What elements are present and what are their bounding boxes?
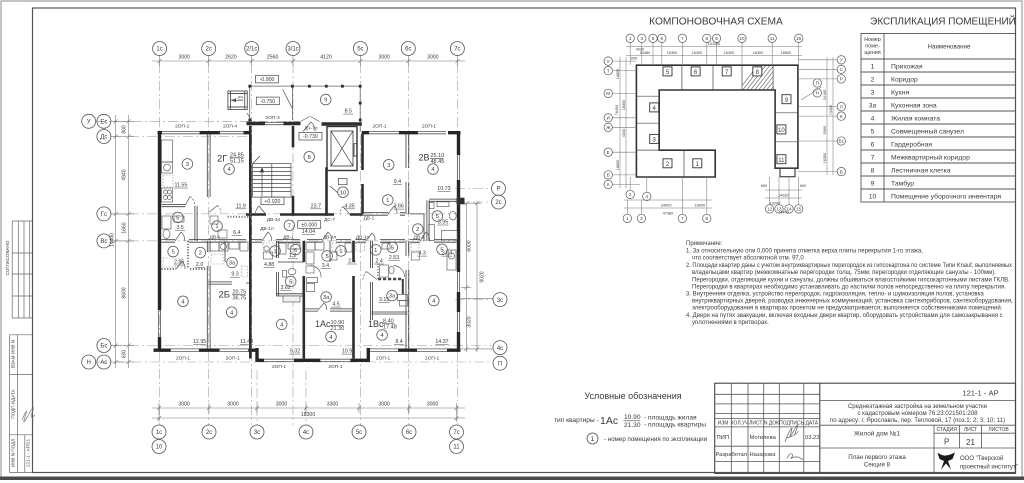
svg-text:14400: 14400	[110, 233, 116, 247]
svg-text:2с: 2с	[495, 200, 501, 206]
svg-text:2с: 2с	[206, 430, 212, 436]
svg-text:1: 1	[339, 249, 342, 255]
bottom wall segments	[154, 349, 461, 352]
svg-text:8: 8	[308, 155, 311, 161]
bottom axis circles	[152, 425, 464, 454]
svg-text:+0.020: +0.020	[264, 199, 280, 205]
svg-text:9: 9	[871, 181, 875, 188]
svg-text:Ж: Ж	[606, 125, 611, 130]
svg-text:16800: 16800	[616, 69, 620, 80]
windows (thin double lines)	[159, 122, 460, 361]
svg-text:2ОП-1: 2ОП-1	[226, 356, 240, 362]
svg-text:ДВ-1л: ДВ-1л	[260, 226, 274, 232]
svg-text:2560: 2560	[267, 55, 279, 61]
svg-text:14.37: 14.37	[435, 339, 448, 345]
svg-text:Дс: Дс	[100, 135, 107, 141]
svg-text:1: 1	[386, 198, 389, 204]
svg-text:3.5: 3.5	[176, 225, 183, 231]
svg-text:щения: щения	[864, 50, 880, 56]
svg-text:2Г: 2Г	[217, 154, 227, 165]
svg-text:Е: Е	[607, 150, 610, 155]
apartment labels	[217, 153, 444, 333]
svg-text:3а: 3а	[229, 261, 236, 267]
svg-text:3: 3	[387, 163, 390, 169]
svg-text:5: 5	[871, 129, 875, 136]
svg-text:7с: 7с	[454, 47, 460, 53]
svg-text:11: 11	[770, 36, 775, 41]
svg-text:электрооборудования в квартир: электрооборудования в квартирах проектом…	[692, 305, 1003, 312]
svg-text:16300: 16300	[753, 51, 764, 55]
svg-text:1: 1	[629, 36, 632, 41]
svg-text:1Вс: 1Вс	[368, 319, 384, 329]
svg-text:17.48: 17.48	[383, 325, 397, 331]
svg-text:3: 3	[641, 36, 644, 41]
svg-text:ДВ-1: ДВ-1	[364, 216, 375, 222]
svg-text:16800: 16800	[616, 160, 620, 171]
svg-text:3000: 3000	[276, 402, 288, 408]
svg-text:9: 9	[715, 36, 718, 41]
svg-text:Разработал: Разработал	[716, 452, 748, 458]
svg-text:3000: 3000	[427, 402, 439, 408]
svg-text:8.5: 8.5	[345, 109, 352, 115]
svg-text:9: 9	[324, 98, 327, 104]
svg-text:03.22: 03.22	[805, 435, 820, 441]
svg-text:10.90: 10.90	[624, 414, 641, 421]
grid: horizontal dashed axis lines	[96, 121, 492, 362]
svg-text:3: 3	[640, 216, 643, 221]
key plan axis circles bottom	[623, 190, 803, 222]
svg-text:4.88: 4.88	[264, 262, 274, 268]
entrance canopy	[228, 91, 247, 110]
svg-text:ЛИСТ: ЛИСТ	[749, 421, 762, 427]
svg-text:Гс: Гс	[101, 212, 107, 218]
svg-text:2В: 2В	[419, 153, 430, 163]
svg-text:2с: 2с	[206, 47, 212, 53]
svg-text:6000: 6000	[467, 240, 473, 251]
svg-text:4: 4	[646, 194, 649, 199]
svg-text:СОГЛАСОВАНО: СОГЛАСОВАНО	[5, 240, 10, 275]
svg-text:ООО "Тверской: ООО "Тверской	[960, 455, 1003, 462]
svg-text:1: 1	[591, 436, 595, 443]
svg-text:КОЛ.УЧ: КОЛ.УЧ	[731, 421, 749, 427]
svg-text:Кухонная зона: Кухонная зона	[891, 103, 937, 110]
left wall segments	[158, 131, 161, 350]
svg-text:121-1 - АР/21: 121-1 - АР/21	[26, 438, 31, 467]
door swings	[175, 113, 430, 310]
svg-text:7: 7	[288, 223, 291, 229]
svg-text:8: 8	[706, 216, 709, 221]
svg-text:Примечание:: Примечание:	[686, 241, 723, 247]
svg-text:3000: 3000	[427, 55, 439, 61]
svg-text:2. Площади квартир даны с учет: 2. Площади квартир даны с учетом внутрик…	[686, 263, 1012, 269]
svg-text:18300: 18300	[301, 412, 316, 418]
svg-text:Перегородки в квартирах необх: Перегородки в квартирах необходимо устан…	[692, 284, 1006, 290]
key plan building U-outline	[636, 65, 798, 177]
right axis circles	[492, 181, 508, 370]
svg-text:74400: 74400	[778, 211, 789, 215]
svg-text:21.30: 21.30	[331, 326, 345, 332]
svg-text:2620: 2620	[225, 55, 237, 61]
svg-text:2: 2	[871, 77, 875, 84]
dotted appliance outlines	[163, 175, 419, 277]
svg-text:У: У	[607, 59, 610, 64]
svg-text:ДАТА: ДАТА	[806, 421, 819, 427]
top dimension line	[152, 55, 465, 66]
svg-text:7: 7	[871, 155, 875, 162]
svg-text:-0.730: -0.730	[303, 134, 318, 140]
svg-text:проектный институт": проектный институт"	[960, 464, 1018, 471]
svg-text:ВЗАМ ИНВ N: ВЗАМ ИНВ N	[11, 340, 16, 368]
svg-text:18900: 18900	[695, 204, 706, 208]
svg-text:2ОП-1: 2ОП-1	[176, 356, 190, 362]
svg-text:2ОП-1: 2ОП-1	[425, 356, 439, 362]
svg-text:У: У	[840, 58, 843, 63]
svg-text:2.5: 2.5	[348, 259, 355, 265]
interior vertical partitions (double line)	[207, 133, 408, 348]
svg-text:4340: 4340	[622, 129, 626, 137]
room number circles	[168, 94, 448, 342]
svg-text:11: 11	[453, 445, 460, 451]
svg-text:- номер помещения по экспликац: - номер помещения по экспликации	[604, 436, 708, 443]
svg-text:10: 10	[340, 190, 346, 196]
svg-text:7: 7	[681, 216, 684, 221]
svg-text:3020: 3020	[467, 316, 473, 327]
svg-text:Номер: Номер	[864, 37, 881, 43]
svg-text:Вс: Вс	[100, 239, 107, 245]
svg-text:4. Двери на путях эвакуации, в: 4. Двери на путях эвакуации, включая вхо…	[686, 312, 1003, 319]
svg-text:Наименование: Наименование	[928, 44, 971, 51]
svg-text:5: 5	[176, 216, 179, 222]
svg-text:16300: 16300	[823, 153, 827, 164]
svg-text:76400: 76400	[615, 105, 619, 116]
svg-text:-0.750: -0.750	[260, 99, 275, 105]
bay walls	[257, 348, 368, 362]
svg-text:3/1с: 3/1с	[287, 47, 298, 53]
svg-text:3000: 3000	[378, 402, 390, 408]
svg-text:800: 800	[122, 125, 128, 134]
svg-text:5: 5	[171, 250, 174, 256]
svg-text:21: 21	[966, 438, 975, 447]
svg-text:10: 10	[778, 128, 785, 134]
svg-text:600: 600	[631, 57, 637, 61]
svg-text:поме-: поме-	[865, 44, 880, 50]
svg-text:П: П	[816, 81, 819, 86]
grid: vertical dashed axis lines	[160, 63, 458, 425]
svg-text:Секция 8: Секция 8	[864, 462, 891, 469]
2V bath	[430, 203, 435, 209]
svg-text:- площадь квартиры: - площадь квартиры	[644, 422, 706, 429]
svg-text:владельцами квартир (межкомнат: владельцами квартир (межкомнатные перего…	[692, 270, 996, 276]
exterior walls	[154, 131, 461, 362]
svg-text:4120: 4120	[320, 55, 332, 61]
svg-text:4с: 4с	[303, 430, 309, 436]
svg-text:±0.000: ±0.000	[301, 223, 317, 229]
svg-text:ПОДПИСЬ: ПОДПИСЬ	[779, 421, 805, 427]
svg-text:21.30: 21.30	[624, 422, 641, 429]
svg-text:8: 8	[871, 168, 875, 175]
svg-text:Р: Р	[840, 77, 843, 82]
svg-text:8.4: 8.4	[395, 339, 402, 345]
svg-text:уплотнениями в притворах.: уплотнениями в притворах.	[692, 320, 769, 326]
svg-text:Б1: Б1	[839, 139, 845, 144]
svg-text:2Б: 2Б	[219, 290, 231, 301]
svg-text:Коридор: Коридор	[891, 77, 918, 84]
svg-text:1с: 1с	[156, 47, 162, 53]
svg-text:Жилая комната: Жилая комната	[891, 116, 940, 123]
1Bc bath	[389, 266, 394, 274]
svg-text:5с: 5с	[357, 47, 363, 53]
1Ac bath	[279, 243, 286, 254]
signature in strip	[22, 407, 35, 422]
svg-text:тип квартиры -: тип квартиры -	[554, 417, 599, 424]
svg-text:15: 15	[796, 36, 802, 41]
svg-text:2ОП-1: 2ОП-1	[372, 124, 386, 130]
svg-text:23.7: 23.7	[311, 203, 321, 209]
svg-text:600: 600	[800, 184, 806, 188]
svg-text:7: 7	[681, 36, 684, 41]
kitchen/bath fixtures	[162, 140, 458, 306]
svg-text:3а: 3а	[389, 294, 396, 300]
logo	[938, 453, 956, 470]
svg-text:1Ас: 1Ас	[315, 319, 331, 329]
svg-text:3. Внутренняя отделка, устройс: 3. Внутренняя отделка, устройство перего…	[686, 291, 984, 298]
svg-text:15: 15	[796, 207, 802, 212]
svg-text:что соответствует абсолютной о: что соответствует абсолютной отм. 97,0	[692, 255, 804, 262]
svg-text:М: М	[606, 91, 610, 96]
svg-text:2.0: 2.0	[196, 262, 203, 268]
stairwell bottom wall	[246, 213, 363, 216]
explication table	[861, 34, 1016, 203]
svg-text:6.4: 6.4	[233, 230, 240, 236]
svg-text:3.95: 3.95	[438, 220, 448, 226]
svg-text:3а: 3а	[323, 295, 330, 301]
svg-text:2ОП-1: 2ОП-1	[422, 124, 436, 130]
svg-text:2: 2	[629, 192, 632, 197]
svg-text:2ОП-4: 2ОП-4	[223, 124, 237, 130]
svg-text:N ДОК: N ДОК	[764, 421, 779, 427]
svg-text:3000: 3000	[227, 402, 239, 408]
svg-text:4940: 4940	[122, 169, 128, 180]
svg-text:14480: 14480	[640, 51, 651, 55]
svg-text:ЛИСТОВ: ЛИСТОВ	[988, 427, 1009, 433]
svg-text:5: 5	[652, 36, 655, 41]
svg-text:Тамбур: Тамбур	[891, 180, 914, 188]
svg-text:2.4: 2.4	[375, 259, 382, 265]
tambour double door leaves	[301, 117, 320, 122]
svg-text:1Ас: 1Ас	[600, 415, 618, 427]
svg-text:Межквартирный коридор: Межквартирный коридор	[891, 154, 970, 162]
svg-text:600: 600	[761, 184, 767, 188]
svg-text:10: 10	[156, 445, 163, 451]
svg-text:48.45: 48.45	[431, 159, 445, 165]
window in protrusion wall 2OP-3	[265, 122, 284, 124]
svg-text:Условные обозначения: Условные обозначения	[584, 391, 681, 401]
svg-text:2.53: 2.53	[389, 255, 399, 261]
svg-text:12: 12	[767, 207, 773, 212]
svg-text:2ОП-1: 2ОП-1	[376, 356, 390, 362]
window/door labels	[175, 115, 439, 370]
svg-text:Назарова: Назарова	[750, 452, 777, 458]
svg-text:10: 10	[869, 194, 877, 201]
svg-text:Т: Т	[607, 68, 610, 73]
kitchen 2G along left wall	[162, 140, 173, 162]
svg-text:Л: Л	[840, 104, 843, 109]
protrusion bottom thick wall with 2OP-3 window and tambour door	[247, 122, 362, 126]
svg-text:9020: 9020	[480, 271, 486, 282]
svg-text:Кухня: Кухня	[891, 90, 910, 97]
svg-text:4: 4	[871, 116, 875, 123]
svg-text:47380: 47380	[663, 212, 674, 216]
svg-text:2ОП-1: 2ОП-1	[328, 364, 342, 370]
svg-text:Р: Р	[496, 187, 500, 193]
svg-text:4с: 4с	[497, 346, 503, 352]
dotted partition segment	[228, 216, 252, 218]
svg-text:1: 1	[374, 248, 377, 254]
svg-text:3300: 3300	[327, 402, 339, 408]
svg-text:с кадастровым номером 76:23:02: с кадастровым номером 76:23:021501:208	[857, 410, 978, 417]
svg-text:ДС-7: ДС-7	[324, 217, 335, 223]
apt 2B kitchen row	[210, 242, 219, 251]
svg-text:8%: 8%	[238, 96, 243, 100]
svg-text:Могилева: Могилева	[750, 435, 777, 441]
2V kitchen right	[447, 250, 456, 270]
svg-text:7с: 7с	[453, 430, 459, 436]
svg-text:Н: Н	[816, 91, 819, 96]
svg-text:101180: 101180	[708, 42, 720, 46]
svg-text:ДЧ-7л: ДЧ-7л	[304, 126, 318, 132]
svg-text:ЛИСТ: ЛИСТ	[964, 427, 977, 433]
svg-text:ДВ-1: ДВ-1	[210, 234, 221, 240]
svg-text:1: 1	[626, 216, 629, 221]
svg-text:16300: 16300	[724, 51, 735, 55]
LEFT STRIP	[10, 221, 33, 473]
svg-text:10: 10	[739, 36, 745, 41]
svg-text:6: 6	[661, 36, 664, 41]
svg-text:9.32: 9.32	[290, 349, 300, 355]
1Ac kitchen	[306, 242, 315, 250]
svg-text:11.9: 11.9	[236, 203, 246, 209]
svg-text:51.15: 51.15	[230, 159, 244, 165]
room 10 sink	[338, 179, 347, 185]
section number squares	[650, 67, 791, 168]
NOTES	[686, 241, 1013, 326]
svg-text:74400: 74400	[829, 105, 833, 116]
svg-text:3000: 3000	[178, 402, 190, 408]
svg-text:2/1с: 2/1с	[246, 47, 257, 53]
svg-text:5: 5	[325, 254, 328, 260]
svg-text:4.35: 4.35	[344, 203, 354, 209]
stairs	[253, 156, 292, 197]
svg-text:3.62: 3.62	[281, 285, 291, 291]
svg-text:13200: 13200	[770, 202, 781, 206]
interior horizontal partitions (double line)	[162, 199, 459, 314]
svg-text:СТАДИЯ: СТАДИЯ	[936, 427, 957, 433]
svg-text:Р: Р	[944, 438, 949, 447]
svg-text:9.4: 9.4	[394, 179, 401, 185]
svg-text:4020: 4020	[636, 48, 644, 52]
svg-text:3.15: 3.15	[379, 297, 389, 303]
svg-text:8: 8	[706, 36, 709, 41]
svg-text:ДВ-1п: ДВ-1п	[323, 234, 337, 240]
svg-text:Б: Б	[607, 173, 610, 178]
svg-text:Среднеэтажная застройка на зем: Среднеэтажная застройка на земельном уча…	[848, 403, 988, 410]
svg-text:Бс: Бс	[100, 344, 107, 350]
signatures	[785, 425, 799, 442]
svg-text:Перегородки, отделяющие кухни: Перегородки, отделяющие кухни и санузлы,…	[692, 276, 1010, 283]
bottom dimension lines	[152, 403, 465, 422]
svg-text:24900: 24900	[661, 204, 672, 208]
svg-text:1: 1	[871, 64, 875, 71]
TITLE BLOCK	[715, 383, 1016, 473]
top wall segments	[158, 131, 461, 134]
svg-text:36.75: 36.75	[233, 296, 247, 302]
right vertical dimension lines	[461, 201, 493, 352]
svg-text:14620: 14620	[778, 194, 789, 198]
svg-text:10.9: 10.9	[342, 349, 352, 355]
svg-text:Лестничная клетка: Лестничная клетка	[891, 168, 951, 175]
area dims underlined	[174, 109, 452, 355]
svg-text:КОМПОНОВОЧНАЯ СХЕМА: КОМПОНОВОЧНАЯ СХЕМА	[649, 17, 783, 28]
svg-text:16300: 16300	[692, 51, 703, 55]
svg-text:ДВ-3л: ДВ-3л	[267, 217, 281, 223]
svg-text:внутриквартирных дверей, разво: внутриквартирных дверей, разводка инжене…	[692, 298, 1013, 305]
bottom scan dark bar	[0, 477, 1024, 481]
svg-text:ДВ-1: ДВ-1	[414, 234, 425, 240]
svg-text:2: 2	[416, 227, 419, 233]
svg-text:- площадь жилая: - площадь жилая	[644, 415, 697, 422]
elevation marks	[256, 75, 323, 228]
svg-text:Жилой дом №1: Жилой дом №1	[854, 430, 900, 438]
svg-text:11.55: 11.55	[174, 183, 187, 189]
svg-text:План первого этажа: План первого этажа	[848, 454, 906, 461]
svg-text:11: 11	[778, 158, 785, 164]
elevator	[327, 127, 357, 171]
svg-text:5: 5	[391, 245, 394, 251]
svg-text:3000: 3000	[179, 55, 191, 61]
svg-text:11.43: 11.43	[240, 339, 253, 345]
svg-text:ИНВ N ПОДЛ: ИНВ N ПОДЛ	[11, 439, 16, 467]
svg-text:24160: 24160	[823, 90, 827, 101]
svg-text:3с: 3с	[497, 298, 503, 304]
svg-text:-0.900: -0.900	[260, 77, 275, 83]
svg-text:В: В	[840, 169, 843, 174]
svg-text:2ОП-3: 2ОП-3	[266, 115, 280, 121]
key plan axis circles right	[813, 56, 845, 176]
svg-text:1с: 1с	[156, 430, 162, 436]
svg-text:1.2: 1.2	[289, 253, 296, 259]
svg-text:14.04: 14.04	[302, 229, 315, 235]
svg-text:ПОДП ИДАТА: ПОДП ИДАТА	[11, 388, 16, 418]
small wall block at axis P/2c right side	[457, 198, 465, 205]
svg-text:16300: 16300	[667, 51, 678, 55]
svg-text:У: У	[87, 120, 91, 126]
svg-text:18300: 18300	[622, 100, 626, 111]
svg-text:3а: 3а	[869, 103, 877, 110]
svg-text:ЭКСПЛИКАЦИЯ ПОМЕЩЕНИЙ: ЭКСПЛИКАЦИЯ ПОМЕЩЕНИЙ	[870, 15, 1016, 28]
top axis circles	[153, 42, 465, 56]
key plan axis circles top	[626, 34, 803, 42]
svg-text:2: 2	[199, 251, 202, 257]
bath 2G	[162, 216, 171, 229]
svg-text:3с: 3с	[254, 430, 260, 436]
svg-text:2ОП-1: 2ОП-1	[175, 124, 189, 130]
svg-text:600: 600	[122, 350, 128, 359]
svg-text:ПИП: ПИП	[717, 435, 730, 441]
svg-text:9300: 9300	[823, 126, 827, 134]
svg-text:П: П	[498, 361, 502, 367]
svg-text:9.3: 9.3	[231, 272, 238, 278]
svg-text:6с: 6с	[405, 47, 411, 53]
